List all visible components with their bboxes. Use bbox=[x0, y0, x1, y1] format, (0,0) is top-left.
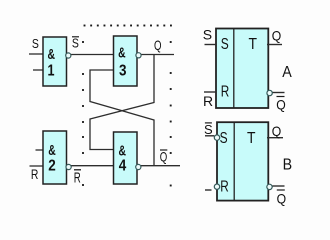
svg-text:S: S bbox=[72, 36, 79, 51]
svg-text:R: R bbox=[74, 170, 81, 187]
svg-text:&: & bbox=[118, 44, 126, 61]
svg-text:S: S bbox=[220, 130, 228, 147]
svg-text:R: R bbox=[203, 93, 213, 109]
svg-text:R: R bbox=[221, 84, 230, 101]
svg-text:Q: Q bbox=[276, 97, 286, 113]
svg-text:2: 2 bbox=[48, 157, 56, 174]
svg-text:&: & bbox=[47, 46, 55, 63]
svg-text:Q: Q bbox=[277, 191, 287, 207]
svg-text:R: R bbox=[31, 166, 38, 182]
svg-text:3: 3 bbox=[119, 63, 127, 80]
svg-text:B: B bbox=[283, 156, 293, 173]
svg-text:Q: Q bbox=[272, 123, 282, 139]
svg-text:A: A bbox=[282, 64, 292, 81]
svg-text:Q: Q bbox=[154, 37, 162, 53]
svg-text:Q: Q bbox=[160, 149, 168, 165]
svg-text:T: T bbox=[247, 130, 256, 147]
svg-text:R: R bbox=[220, 179, 229, 196]
svg-text:1: 1 bbox=[48, 62, 55, 79]
svg-text:S: S bbox=[203, 26, 212, 42]
svg-text:Q: Q bbox=[272, 27, 282, 43]
svg-text:4: 4 bbox=[119, 157, 127, 174]
svg-text:S: S bbox=[204, 122, 213, 137]
svg-text:S: S bbox=[221, 36, 229, 53]
svg-text:T: T bbox=[249, 36, 258, 53]
svg-text:S: S bbox=[32, 36, 39, 51]
